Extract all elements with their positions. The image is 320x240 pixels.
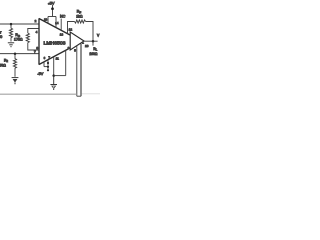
resistor RL stub [92, 41, 94, 45]
wire pin 11 down [53, 57, 55, 76]
node VG junction [14, 52, 17, 55]
wire pin 4 [28, 29, 39, 34]
svg-text:11: 11 [56, 57, 59, 61]
pin 14 stub [55, 17, 57, 28]
svg-text:12: 12 [69, 27, 73, 31]
wire VIN input to pin 2 [0, 23, 39, 25]
wire pin 12 feedback [68, 22, 75, 34]
wire output [84, 40, 98, 42]
wire -5V vertical [47, 60, 49, 70]
resistor on VG line 50 [13, 54, 16, 77]
svg-text:3: 3 [36, 46, 38, 50]
svg-text:R2: R2 [4, 58, 8, 63]
wire pin 3 [28, 43, 39, 50]
wire pin8 to -5V line [44, 66, 48, 68]
svg-text:50Ω: 50Ω [0, 64, 6, 68]
svg-text:13: 13 [60, 33, 64, 37]
op-amp output buffer small triangle [70, 32, 84, 50]
svg-text:V: V [97, 33, 100, 37]
svg-text:50: 50 [0, 35, 2, 39]
svg-text:5: 5 [74, 49, 76, 53]
svg-text:10: 10 [85, 44, 89, 48]
border rule bottom [0, 93, 77, 95]
wire VG input to pin 7 [0, 53, 39, 55]
svg-text:170Ω: 170Ω [14, 37, 23, 41]
wire RF to output [86, 22, 93, 42]
svg-text:-5V: -5V [37, 72, 43, 76]
wire supply tee bar [48, 16, 56, 18]
svg-text:13: 13 [44, 18, 48, 22]
svg-text:100Ω: 100Ω [89, 52, 98, 56]
node -5V terminal [47, 69, 49, 71]
node -5V junction upper [47, 62, 49, 64]
svg-text:9: 9 [68, 46, 70, 50]
node -5V junction lower [47, 66, 49, 68]
wire ground bus [54, 75, 66, 77]
pin 8 stub [43, 62, 45, 67]
node +5V junction [51, 7, 54, 10]
svg-text:LMH6503: LMH6503 [44, 40, 67, 45]
wire pin 9 down [65, 51, 67, 76]
node pin11 ground junction [52, 74, 55, 77]
ground under RT [8, 43, 14, 47]
svg-text:6: 6 [44, 56, 46, 60]
svg-text:2: 2 [35, 19, 37, 23]
svg-text:RL: RL [93, 47, 97, 52]
svg-text:4: 4 [36, 30, 38, 34]
svg-text:NC: NC [60, 14, 66, 18]
pin 1 NC stub [60, 19, 62, 30]
resistor RF 1k [75, 20, 86, 23]
node output junction [92, 40, 95, 43]
svg-text:1kΩ: 1kΩ [76, 14, 83, 18]
svg-text:RT: RT [0, 30, 2, 35]
wire +5V down [52, 5, 54, 17]
op-amp U1 LMH6503 main triangle [39, 18, 70, 64]
resistor RG 170 [26, 33, 29, 43]
wire joining pins 5 and 6 [77, 95, 81, 97]
wire pin 5 down [76, 46, 78, 96]
wire pin 6 down [80, 44, 82, 97]
resistor RT 50 (input termination) [9, 24, 12, 42]
ground under pin 11 [50, 76, 57, 90]
ground under VG resistor [12, 78, 19, 85]
pin 13 stub [47, 17, 49, 24]
svg-text:14: 14 [55, 21, 59, 25]
node input junction [10, 23, 13, 26]
svg-text:+5V: +5V [48, 0, 55, 5]
